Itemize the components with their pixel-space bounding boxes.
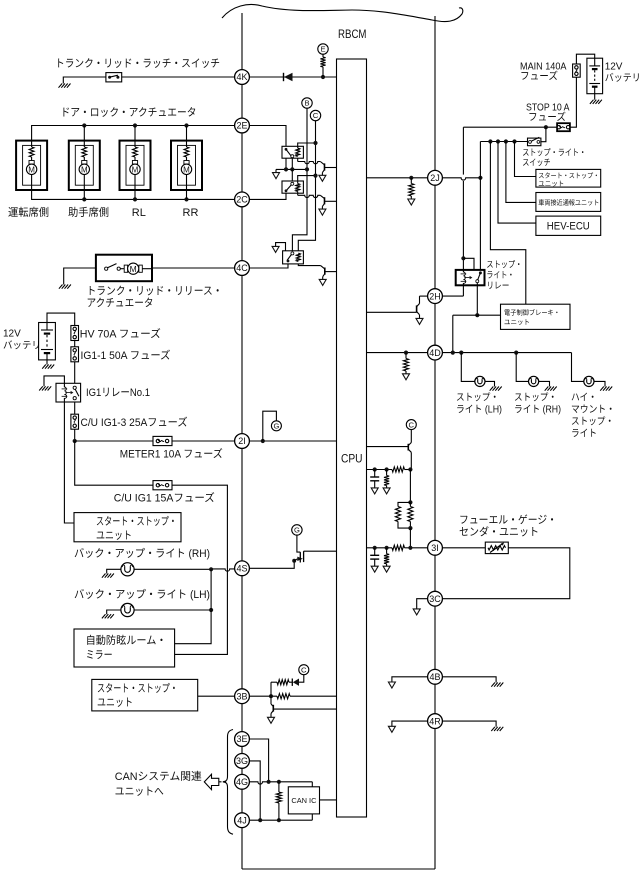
wire stop switch output row [480, 141, 527, 143]
svg-text:G: G [294, 526, 300, 535]
capacitor C1 [374, 470, 376, 478]
wire 4B left arrow [392, 677, 428, 682]
wire sender loop to 3C [442, 548, 569, 599]
connector 3B [235, 689, 250, 704]
fuse IG1-1 50A [71, 347, 79, 362]
arrow to CAN system units [219, 781, 227, 783]
connector 2C [235, 192, 250, 207]
resistor R-CAN termination [278, 782, 280, 792]
wire to start-stop unit box [515, 142, 536, 177]
svg-text:助手席側: 助手席側 [68, 206, 109, 219]
ground for IG1 relay coil [39, 386, 43, 390]
node unit feed 3 [504, 139, 508, 143]
wire to HEV-ECU box [498, 142, 536, 224]
wire 2H to stop relay coil [442, 295, 463, 297]
wire 2C bus [32, 190, 235, 199]
node 4J-3G junction [258, 818, 262, 822]
connector 3G [235, 754, 250, 769]
ground stop lamp LH [490, 387, 494, 391]
wire K2 coil to Q1 collector with hops [297, 158, 299, 161]
terminal C upper [310, 110, 320, 120]
door lock motor M2 [69, 141, 100, 190]
arrow ground Q2 emitter [319, 209, 326, 215]
wire 4D lamp bus [442, 352, 571, 354]
node unit feed 2 [496, 139, 500, 143]
svg-text:C/U IG1-3 25Aフューズ: C/U IG1-3 25Aフューズ [81, 416, 188, 429]
svg-text:ドア・ロック・アクチュエータ: ドア・ロック・アクチュエータ [61, 107, 197, 119]
svg-text:3I: 3I [431, 543, 439, 553]
terminal G near 2I [271, 421, 281, 431]
svg-text:C: C [301, 665, 307, 674]
svg-text:M: M [28, 165, 35, 174]
svg-text:2E: 2E [236, 121, 247, 131]
box start-stop unit lower [92, 679, 198, 711]
svg-text:M: M [132, 165, 139, 174]
svg-text:リレー: リレー [486, 281, 509, 291]
wire 4K to CPU [250, 76, 337, 78]
arrow ground 3C [413, 609, 420, 615]
node backup RH junction [209, 567, 213, 571]
svg-text:G: G [273, 422, 279, 431]
svg-text:METER1 10A フューズ: METER1 10A フューズ [120, 448, 223, 461]
svg-text:B: B [304, 99, 309, 108]
ground below right battery [590, 100, 594, 104]
wire 4B right ground [442, 677, 496, 683]
node lamp RH branch [514, 351, 518, 355]
lamp high mount stop light [584, 376, 594, 386]
fuse C/U IG1-3 25A [71, 414, 79, 429]
door lock motor M3 [120, 141, 151, 190]
wire stop lamp RH to ground [539, 381, 550, 386]
wire relay K2 coil to C [298, 143, 316, 148]
RBCM bottom boundary wire [242, 868, 435, 870]
wire battery top to HV fuse [47, 313, 75, 325]
svg-text:フューエル・ゲージ・: フューエル・ゲージ・ [459, 514, 557, 527]
node METER1 branch [73, 439, 77, 443]
node unit feed 4 [512, 139, 516, 143]
relay IG1 No.1 K1 [56, 383, 81, 402]
svg-text:C: C [313, 111, 319, 120]
svg-text:CAN IC: CAN IC [291, 796, 317, 805]
arrow ground 4B [388, 682, 395, 688]
node row1 right [408, 467, 412, 471]
wire backup RH to 4S with hop [134, 568, 211, 570]
wire start-stop unit to 3B [198, 695, 235, 697]
svg-text:2I: 2I [238, 436, 246, 446]
svg-text:電子制御ブレーキ・: 電子制御ブレーキ・ [504, 309, 560, 317]
box start-stop unit right [536, 169, 601, 187]
wire backup junction to mirror box [175, 569, 212, 643]
node stop switch branch [544, 125, 548, 129]
node divider bottom [408, 526, 412, 530]
wire row1 to divider [409, 470, 411, 503]
resistor R-row1-shunt [386, 470, 388, 476]
resistor R-2J [410, 178, 412, 184]
wire K3 switch to 2C [250, 193, 287, 199]
svg-text:4K: 4K [236, 72, 247, 82]
arrow ground C1 [371, 488, 378, 494]
svg-text:スイッチ: スイッチ [522, 158, 551, 168]
svg-text:HEV-ECU: HEV-ECU [547, 220, 590, 232]
relay K5 stop light [456, 270, 485, 285]
arrow ground R-row1-shunt [383, 488, 390, 494]
wire backup LH to junction [134, 609, 211, 611]
svg-text:IG1-1 50A フューズ: IG1-1 50A フューズ [81, 349, 171, 362]
door lock motor M4 [171, 141, 202, 190]
node row2 right [408, 546, 412, 550]
connector 2H [428, 289, 443, 304]
RBCM left boundary wire [241, 13, 243, 869]
node relay output junction [475, 313, 479, 317]
CPU box U1 [337, 59, 367, 817]
resistor R-par-left [398, 502, 410, 506]
ground 4B right [491, 683, 495, 687]
svg-text:3B: 3B [236, 691, 247, 701]
wire filter row 1 [367, 469, 393, 471]
wire K3 coil to Q2 collector with hops [297, 192, 299, 196]
connector 3C [428, 591, 443, 606]
transistor Q5 stop relay driver [419, 296, 421, 303]
svg-text:スタート・ストップ・: スタート・ストップ・ [538, 172, 599, 180]
connector 4R [428, 714, 443, 729]
wire high mount lamp to ground [594, 381, 605, 386]
fuse MAIN 140A [573, 64, 581, 77]
wire K4 coil to Q3 collector [298, 264, 320, 266]
svg-text:E: E [320, 45, 325, 54]
switch stop light SW2 [528, 138, 541, 146]
RBCM module torn top edge [222, 5, 463, 22]
wire to high mount lamp [572, 353, 584, 382]
ground backup RH [102, 574, 106, 578]
wire METER1 row to 2I [75, 440, 235, 442]
wire 3B upper branch [270, 682, 272, 696]
junction dots motor 3 [133, 123, 137, 127]
svg-text:バック・アップ・ライト (LH): バック・アップ・ライト (LH) [74, 588, 210, 601]
svg-text:トランク・リッド・ラッチ・スイッチ: トランク・リッド・ラッチ・スイッチ [55, 58, 220, 70]
svg-text:12V: 12V [605, 62, 623, 73]
fuse HV 70A [71, 326, 79, 341]
terminal C near 3B [299, 665, 309, 675]
node relay contact branch [461, 256, 465, 260]
wire relay K3 coil top to C [298, 176, 316, 184]
node 4J resistor junction [277, 818, 281, 822]
connector 4C [235, 261, 250, 276]
fuse METER1 10A [153, 436, 172, 445]
wire relay contact output [476, 283, 478, 316]
wire 2I to CPU [250, 440, 337, 442]
wire IG1 relay coil to ground elbow [44, 376, 64, 386]
resistor R-E from E [322, 54, 324, 57]
svg-text:3E: 3E [236, 734, 247, 744]
svg-text:ライト (RH): ライト (RH) [514, 405, 561, 416]
node unit feed 1 [488, 139, 492, 143]
wire STOP fuse to relay coil with hop at 2J [462, 127, 464, 174]
svg-text:M: M [81, 165, 88, 174]
wire relay output down to 4D [452, 315, 454, 352]
wire relay coil bottom to 2H [462, 285, 464, 296]
wire backup RH lamp to ground [107, 569, 121, 573]
wire junction row [276, 168, 307, 170]
wire 2E bus [32, 126, 235, 141]
svg-text:バッテリ: バッテリ [605, 72, 641, 84]
svg-text:2C: 2C [236, 195, 248, 205]
wire B vertical [292, 108, 307, 251]
wire relay output to brake unit [453, 314, 501, 316]
arrow ground Q3 emitter [319, 279, 326, 285]
wire 4K row [63, 77, 234, 84]
node row B [305, 167, 309, 171]
transistor Q4 FET backup [292, 559, 296, 563]
wire IG1 relay to CU IG1-3 fuse [74, 402, 76, 414]
node 4D brake branch [451, 351, 455, 355]
svg-text:RL: RL [132, 207, 146, 219]
battery B2 12V right [587, 58, 603, 93]
transistor Q1 door lock [320, 162, 324, 165]
wire 3C elbow to arrow [417, 599, 428, 609]
wire 4R right ground [442, 721, 496, 727]
node C-K2 coil [313, 141, 317, 145]
transistor Q6 fuel [410, 430, 412, 443]
wire G to FET gate [297, 535, 300, 552]
node E junction on 4K wire [321, 75, 325, 79]
svg-text:ユニット: ユニット [96, 530, 132, 542]
svg-text:M: M [130, 264, 137, 274]
connector 4B [428, 669, 443, 684]
wire backup LH lamp to ground [107, 610, 121, 614]
node G branch on 2I wire [261, 439, 265, 443]
connector 4K [235, 70, 250, 85]
wire STOP fuse row [463, 126, 557, 128]
arrow ground junction row [273, 173, 280, 179]
wire stop lamp LH to ground [485, 381, 495, 386]
ground for release actuator [59, 285, 63, 289]
svg-text:2H: 2H [429, 291, 441, 301]
wire release actuator to ground [64, 268, 96, 285]
svg-text:スタート・ストップ・: スタート・ストップ・ [97, 682, 178, 695]
resistor R-row1 [392, 467, 405, 472]
lamp stop light LH [475, 376, 485, 386]
node stop switch feed on 2J wire [478, 176, 482, 180]
junction dots motor 4 [184, 123, 188, 127]
box vehicle approach unit [536, 193, 601, 212]
svg-text:センダ・ユニット: センダ・ユニット [459, 526, 539, 539]
arrow ground R-4D [403, 374, 410, 380]
wire MAIN fuse to STOP fuse [570, 77, 577, 127]
svg-text:12V: 12V [3, 329, 21, 340]
svg-text:ユニット: ユニット [504, 319, 530, 327]
resistor R-3B lower [277, 694, 290, 699]
wire CPU to 2J with hop to stop relay feed [367, 177, 428, 179]
svg-text:ライト: ライト [571, 429, 597, 440]
svg-text:自動防眩ルーム・: 自動防眩ルーム・ [86, 634, 167, 647]
svg-text:RR: RR [183, 207, 199, 219]
switch latch SW1 [106, 73, 122, 82]
svg-text:4J: 4J [237, 815, 247, 825]
wire divider to row2 [409, 528, 411, 548]
node 3B branch [269, 694, 273, 698]
wire K4 switch to 4C [250, 264, 289, 268]
svg-text:ユニット: ユニット [538, 180, 564, 188]
svg-text:4S: 4S [236, 564, 247, 574]
svg-text:ハイ・: ハイ・ [571, 393, 597, 404]
transistor Q2 door lock [320, 195, 324, 198]
svg-text:ユニットへ: ユニットへ [115, 786, 164, 798]
svg-text:CANシステム関連: CANシステム関連 [115, 770, 202, 783]
connector 3E [235, 732, 250, 747]
svg-text:ストップ・: ストップ・ [514, 392, 557, 404]
IC CAN IC U2 [288, 787, 319, 814]
svg-text:IG1リレーNo.1: IG1リレーNo.1 [86, 387, 150, 399]
box HEV-ECU [536, 216, 601, 235]
node backup LH junction [209, 608, 213, 612]
node 4G resistor junction [277, 780, 281, 784]
wire pivot link row to relay K3 [291, 169, 293, 181]
ground stop lamp RH [545, 387, 549, 391]
svg-text:ユニット: ユニット [97, 697, 133, 709]
svg-text:HV 70A フューズ: HV 70A フューズ [80, 328, 161, 341]
terminal B [302, 98, 312, 108]
wire 2H to transistor Q5 [420, 295, 428, 297]
connector 4S [235, 561, 250, 576]
svg-text:フューズ: フューズ [528, 111, 566, 123]
svg-text:フューズ: フューズ [520, 71, 558, 83]
fuse STOP 10A [557, 123, 570, 131]
diode D1 on 4K wire [283, 73, 285, 81]
svg-text:RBCM: RBCM [338, 29, 367, 41]
svg-text:C/U IG1 15Aフューズ: C/U IG1 15Aフューズ [114, 492, 215, 505]
wire to stop lamp LH [461, 353, 475, 382]
wire CAN IC to CPU [320, 799, 337, 801]
svg-text:C: C [409, 420, 415, 429]
trunk lid release actuator M5 [96, 255, 152, 282]
svg-text:CPU: CPU [341, 452, 363, 466]
wire 4C to release actuator [152, 267, 235, 269]
fuse C/U IG1 15A [153, 481, 172, 490]
wire relay K2 outputs to junction row [285, 158, 287, 169]
resistor R-row2-shunt [386, 548, 388, 554]
svg-text:ミラー: ミラー [86, 650, 113, 662]
diode D-3B to C [289, 681, 292, 683]
junction dots motor 2 [82, 123, 86, 127]
wire to stop lamp RH [516, 353, 528, 382]
terminal C near fuel gauge [406, 420, 416, 430]
node C-K3 coil [313, 174, 317, 178]
box auto-dimming mirror [74, 629, 175, 667]
svg-text:4D: 4D [429, 348, 441, 358]
resistor R-par-right [409, 502, 411, 506]
arrow ground Q1 emitter [319, 175, 326, 181]
transistor Q-3B [270, 696, 272, 704]
arrow ground Q-3B emitter [268, 717, 275, 723]
node row K2 switch [284, 167, 288, 171]
wire battery right to ground [594, 94, 596, 100]
node lamp LH branch [459, 351, 463, 355]
wire contact branch into relay [463, 258, 474, 273]
arrow ground R-row2-shunt [383, 566, 390, 572]
wire IG1 relay coil return to start-stop unit [64, 402, 74, 523]
svg-text:ストップ・: ストップ・ [486, 260, 522, 270]
relay K4 trunk [283, 251, 304, 264]
wire 3B to CPU [250, 695, 278, 697]
svg-text:ストップ・: ストップ・ [571, 416, 614, 428]
svg-text:アクチュエータ: アクチュエータ [87, 298, 154, 310]
arrow ground C2 [371, 566, 378, 572]
lamp back-up light LH [121, 603, 134, 616]
svg-text:運転席側: 運転席側 [8, 206, 49, 219]
wire IG1-1 fuse to IG1 relay [74, 362, 76, 384]
connector 2J [428, 170, 443, 185]
svg-text:3C: 3C [429, 594, 441, 604]
svg-text:4B: 4B [429, 672, 440, 682]
connector 2E [235, 118, 250, 133]
wire CU IG1-3 fuse down to METER1 node [74, 429, 76, 441]
node 4D resistor branch [404, 351, 408, 355]
svg-text:トランク・リッド・リリース・: トランク・リッド・リリース・ [87, 286, 223, 298]
svg-text:マウント・: マウント・ [571, 405, 615, 416]
connector 4G [235, 774, 250, 789]
wire C vertical [298, 121, 315, 251]
node 4G-3E junction [267, 780, 271, 784]
terminal E [318, 44, 328, 54]
arrow ground K4 elbow [272, 246, 279, 252]
relay K2 door lock [282, 146, 303, 158]
wire battery to ground [46, 360, 48, 365]
wire K4 pivot elbow to arrow [276, 243, 286, 251]
svg-text:ストップ・ライト・: ストップ・ライト・ [522, 148, 586, 158]
wire to brake unit box [490, 142, 525, 305]
transistor Q3 trunk [321, 266, 325, 269]
relay K3 door lock [282, 181, 303, 193]
wire G elbow [263, 411, 277, 441]
arrow ground Q5 emitter [416, 318, 423, 324]
wire node to stop switch [541, 127, 546, 142]
wire to vehicle approach unit box [506, 142, 536, 203]
node row pivot [290, 167, 294, 171]
ground below left battery [42, 365, 46, 369]
svg-text:ストップ・: ストップ・ [456, 392, 499, 404]
ground 4R right [491, 727, 495, 731]
RBCM right boundary wire [434, 16, 436, 869]
svg-text:スタート・ストップ・: スタート・ストップ・ [96, 515, 177, 528]
ground high mount lamp [600, 387, 604, 391]
resistor R-3B upper [277, 680, 289, 685]
connector 4J [235, 813, 250, 828]
ground for latch switch [59, 84, 63, 88]
ground backup LH [102, 614, 106, 618]
arrow ground R-2J [408, 199, 415, 205]
wire down to CU IG1 15A fuse row [75, 441, 228, 654]
connector 2I [235, 434, 250, 449]
svg-text:4G: 4G [236, 777, 248, 787]
node 2J resistor branch [409, 176, 413, 180]
wire 3E to CAN node [250, 739, 269, 782]
battery B1 12V [39, 323, 56, 360]
node divider top [408, 500, 412, 504]
door lock motor M1 [16, 141, 47, 190]
connector 4D [428, 345, 443, 360]
node row1 cap [373, 467, 377, 471]
connector 3I [428, 540, 443, 555]
svg-text:ライト・: ライト・ [486, 270, 514, 280]
wire MAIN fuse to battery [576, 54, 594, 64]
node row1 res [385, 467, 389, 471]
node row2 res [385, 546, 389, 550]
svg-text:4C: 4C [236, 263, 248, 273]
wire HV to IG1-1 fuse [74, 341, 76, 347]
svg-text:2J: 2J [430, 173, 440, 183]
capacitor C2 [374, 548, 376, 556]
lamp back-up light RH [121, 563, 134, 576]
